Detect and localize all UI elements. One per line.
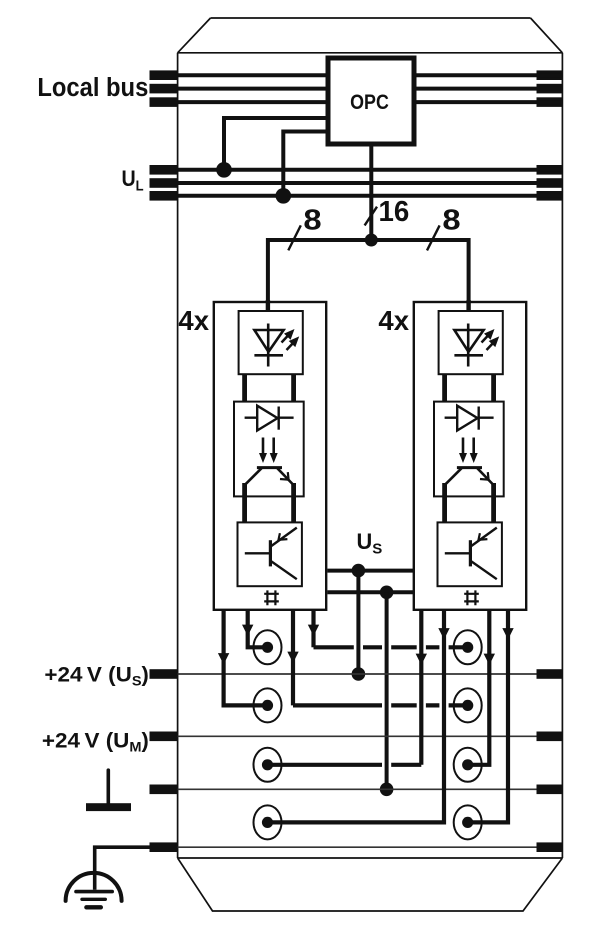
module outline (Inline terminal housing): [178, 18, 563, 911]
wire output rw2 right block to terminal 1.4: [268, 610, 445, 822]
optocoupler light arrows right: [462, 438, 465, 454]
wire +24V US rail: [178, 673, 563, 675]
svg-text:Local bus: Local bus: [37, 73, 148, 102]
optocoupler box right: [434, 402, 504, 497]
terminal contact dot 1.1: [262, 642, 273, 653]
LED D1 symbol left: [267, 324, 270, 367]
bus width slash 16: [365, 207, 377, 226]
wire earth connection: [95, 847, 151, 890]
optocoupler phototransistor left: [257, 466, 282, 469]
local bus terminal bar right 1: [537, 70, 563, 80]
svg-text:8: 8: [442, 204, 460, 236]
wire GND rail: [178, 788, 563, 790]
GND rail terminal bar right: [537, 785, 563, 795]
optocoupler input diode left: [245, 417, 294, 419]
wire LED to optocoupler left bar left: [242, 374, 247, 420]
local bus terminal bar left 2: [150, 84, 178, 94]
transistor Q2 symbol right: [469, 540, 472, 566]
wire optocoupler to transistor left bar left: [242, 483, 247, 524]
svg-text:8: 8: [303, 204, 321, 236]
node junction on UL line 3: [276, 188, 292, 204]
svg-text:16: 16: [379, 196, 410, 227]
node US junction: [352, 564, 366, 578]
FE earth rail terminal bar left: [150, 842, 178, 852]
terminal point 1.1: [254, 630, 282, 664]
terminal point 2.2: [454, 688, 482, 722]
wire local bus line 2: [178, 87, 563, 91]
svg-text:4x: 4x: [378, 305, 409, 336]
wire output rw4 right block to terminal 2.4: [468, 610, 508, 822]
wire LED to optocoupler right bar right: [491, 374, 496, 420]
wire output rw3 right block to terminal 2.3: [468, 610, 490, 765]
wire optocoupler to transistor left bar right: [442, 483, 447, 524]
+24V UM rail terminal bar left: [150, 732, 178, 742]
UL terminal bar left 1: [150, 165, 178, 175]
wire optocoupler to transistor right bar right: [491, 483, 496, 524]
output transistor box right: [438, 522, 502, 586]
ground symbol GND rail: [107, 770, 111, 803]
wire US between blocks: [327, 569, 413, 573]
LED indicator box left: [239, 311, 303, 374]
local bus terminal bar left 1: [150, 70, 178, 80]
UL terminal bar left 2: [150, 178, 178, 188]
terminal contact dot 1.2: [262, 700, 273, 711]
optocoupler phototransistor right: [457, 466, 482, 469]
terminal contact dot 1.3: [262, 759, 273, 770]
node GND on GND rail: [380, 783, 394, 797]
UL terminal bar right 3: [537, 191, 563, 201]
output channel group block 4x left: [214, 302, 326, 610]
svg-text:+24 V (US): +24 V (US): [44, 662, 148, 690]
wire OPC left to UL line1: [224, 118, 326, 170]
wire UL line 1: [178, 168, 563, 172]
terminal point 2.1: [454, 630, 482, 664]
terminal point 1.2: [254, 688, 282, 722]
bus width slash 8 left: [288, 225, 301, 250]
terminal contact dot 2.1: [462, 642, 473, 653]
terminal contact dot 1.4: [262, 817, 273, 828]
galvanic isolation symbol left: [264, 590, 279, 605]
GND rail terminal bar left: [150, 785, 178, 795]
svg-text:+24 V (UM): +24 V (UM): [42, 728, 149, 756]
bus width slash 8 right: [427, 225, 440, 250]
terminal point 2.4: [454, 805, 482, 839]
node bus split junction: [365, 234, 378, 247]
OPC protocol chip U1: [328, 58, 414, 144]
terminal point 2.3: [454, 748, 482, 782]
node junction on UL line 1: [216, 162, 232, 178]
wire output rw1 right block to terminal 1.3: [419, 610, 423, 765]
local bus terminal bar left 3: [150, 97, 178, 107]
wire output w4 left block to terminal 2.1: [311, 610, 315, 647]
wire local bus line 3: [178, 100, 563, 104]
optocoupler light arrows left: [262, 438, 265, 454]
FE earth rail terminal bar right: [537, 842, 563, 852]
wire optocoupler to transistor right bar left: [291, 483, 296, 524]
output transistor box left: [238, 522, 302, 586]
node GND junction: [380, 586, 394, 600]
LED D2 symbol right: [467, 324, 470, 367]
wire US drop to +24V rail: [356, 571, 360, 674]
optocoupler box left: [234, 402, 304, 497]
wire OPC left to UL line3: [283, 132, 326, 196]
wire GND drop to GND rail: [385, 592, 389, 789]
svg-text:UL: UL: [122, 167, 144, 194]
wire FE earth rail: [178, 846, 563, 848]
wire output w2 left block to terminal 1.1: [248, 610, 268, 647]
optocoupler input diode right: [445, 417, 494, 419]
wire GND between blocks: [327, 590, 413, 594]
wire output w1 left block to terminal 1.2: [224, 610, 268, 705]
terminal contact dot 2.3: [462, 759, 473, 770]
terminal point 1.4: [254, 805, 282, 839]
terminal point 1.3: [254, 748, 282, 782]
svg-text:US: US: [357, 529, 383, 558]
svg-text:4x: 4x: [178, 305, 209, 336]
node US on +24V US rail: [352, 667, 366, 681]
galvanic isolation symbol right: [464, 590, 479, 605]
wire block input left: [266, 300, 270, 312]
local bus terminal bar right 3: [537, 97, 563, 107]
earth ground symbol: [66, 873, 122, 901]
wire output w3 left block to terminal 2.2: [291, 610, 295, 705]
wire LED to optocoupler left bar right: [442, 374, 447, 420]
wire block input right: [466, 300, 470, 312]
wire +24V UM rail: [178, 735, 563, 737]
wire local bus line 1: [178, 73, 563, 77]
wire bus split horizontal: [268, 240, 469, 301]
+24V US rail terminal bar left: [150, 669, 178, 679]
output channel group block 4x right: [414, 302, 526, 610]
+24V UM rail terminal bar right: [537, 732, 563, 742]
transistor Q1 symbol left: [269, 540, 272, 566]
local bus terminal bar right 2: [537, 84, 563, 94]
wire LED to optocoupler right bar left: [291, 374, 296, 420]
LED indicator box right: [439, 311, 503, 374]
wire UL line 3: [178, 194, 563, 198]
wire OPC bottom bus 16: [369, 146, 373, 240]
wire UL line 2: [178, 181, 563, 185]
+24V US rail terminal bar right: [537, 669, 563, 679]
terminal contact dot 2.4: [462, 817, 473, 828]
svg-text:OPC: OPC: [350, 91, 389, 115]
UL terminal bar right 1: [537, 165, 563, 175]
terminal contact dot 2.2: [462, 700, 473, 711]
UL terminal bar right 2: [537, 178, 563, 188]
UL terminal bar left 3: [150, 191, 178, 201]
